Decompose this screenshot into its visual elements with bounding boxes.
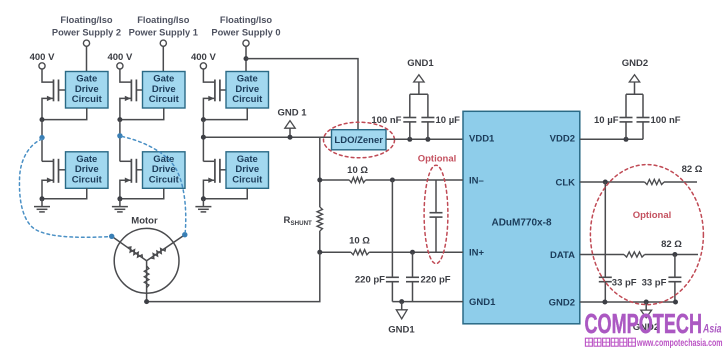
node: supply 0 branch junction <box>244 56 249 61</box>
ground GND1 (top, up triangle) <box>414 75 424 82</box>
node A: phase 1 tap (blue) <box>39 135 44 140</box>
wire: supply 1 to gate drive box 2 <box>162 46 164 71</box>
wire: cap bracket to GND2 (top) <box>626 82 643 94</box>
terminal circle: Power Supply 1 <box>160 40 166 46</box>
gate drive circuit block U3 (high side) <box>226 72 269 109</box>
svg-text:400 V: 400 V <box>191 52 216 63</box>
transistor Q5 (low side) <box>125 159 143 183</box>
ground (chassis) 1 <box>34 199 50 212</box>
node: source junction 3 <box>201 196 206 201</box>
ground (chassis) 3 <box>195 199 211 212</box>
optional ellipse (right) <box>590 165 703 305</box>
svg-text:Power Supply 1: Power Supply 1 <box>129 28 198 38</box>
capacitor 220 pF (left, from IN-) <box>386 180 399 302</box>
node: GND1 bottom junction <box>399 299 404 304</box>
wire: phase node 2 down to Q5 drain <box>119 120 121 162</box>
wire: gate drive U3 return to phase node <box>203 108 247 120</box>
wire: GND1 line to chip <box>392 301 463 303</box>
svg-text:Power Supply 2: Power Supply 2 <box>52 28 121 38</box>
wire: Q6 drain stub <box>203 160 215 162</box>
svg-text:Circuit: Circuit <box>72 175 103 186</box>
svg-text:100 nF: 100 nF <box>651 115 681 126</box>
svg-text:10 Ω: 10 Ω <box>347 165 368 176</box>
svg-text:Optional: Optional <box>633 210 672 221</box>
transistor Q4 (low side) <box>47 159 66 183</box>
motor M1 (circle) <box>114 228 179 293</box>
wire: GND1 stub down <box>401 302 403 310</box>
svg-text:Circuit: Circuit <box>149 175 180 186</box>
node: 10uF junction on VDD2 <box>624 137 629 142</box>
resistor 10 Ohm (IN+) <box>351 250 369 255</box>
resistor 82 Ohm (DATA) <box>624 252 645 257</box>
svg-text:ADuM770x-8: ADuM770x-8 <box>491 218 551 229</box>
svg-text:Floating/Iso: Floating/Iso <box>137 15 189 25</box>
gate drive circuit block U6 (low side) <box>226 152 269 189</box>
wire: Q5 drain stub <box>120 160 131 162</box>
gate drive circuit block U4 (low side) <box>66 152 109 189</box>
svg-text:Optional: Optional <box>418 153 457 164</box>
optional ellipse around LDO/Zener <box>324 122 395 158</box>
svg-text:GND2: GND2 <box>549 297 575 308</box>
transistor Q2 (high side) <box>125 80 143 102</box>
wire: Q3 source to phase node <box>203 98 215 119</box>
node: Floating/Iso Power Supply 2 label <box>52 15 121 37</box>
wire: gate drive U1 return to phase node <box>42 108 87 120</box>
svg-text:GND1: GND1 <box>469 297 496 308</box>
wire: motor winding arm left <box>112 236 147 260</box>
svg-text:Power Supply 0: Power Supply 0 <box>211 28 280 38</box>
node: watermark url line <box>585 337 722 349</box>
node: 100nF junction on VDD1 <box>407 137 412 142</box>
node: phase junction 2 <box>117 117 122 122</box>
terminal circle: Power Supply 2 <box>83 40 89 46</box>
capacitor 10 uF (VDD2) <box>620 94 633 139</box>
svg-text:DATA: DATA <box>550 250 575 261</box>
node: DATA junction <box>672 252 677 257</box>
svg-text:GND1: GND1 <box>407 58 434 69</box>
wire: motor winding arm bottom <box>146 261 148 302</box>
wire: gate drive U5 return to ground node <box>120 188 164 199</box>
capacitor 33 pF (DATA) <box>668 255 681 303</box>
svg-text:33 pF: 33 pF <box>642 277 667 288</box>
optional ellipse (mid) <box>424 165 448 263</box>
wire: supply 0 to gate drive box 3 <box>245 46 247 71</box>
node: IN+ junction with shunt <box>317 250 322 255</box>
wire: GND2 stub down <box>645 302 647 310</box>
wire: line down to R_SHUNT <box>319 137 321 207</box>
transistor Q6 (low side) <box>208 159 226 183</box>
resistor motor winding left <box>128 247 143 258</box>
node: source junction 1 <box>40 196 45 201</box>
wire: 400 V to Q2 drain <box>120 69 131 82</box>
capacitor 33 pF (CLK) <box>599 182 612 302</box>
svg-text:Circuit: Circuit <box>232 175 263 186</box>
wire: Q4 source to ground node <box>42 180 54 199</box>
gate drive circuit block U1 (high side) <box>66 72 109 109</box>
node: motor bottom corner <box>144 299 149 304</box>
node: Floating/Iso Power Supply 1 label <box>129 15 198 37</box>
resistor R_SHUNT <box>317 207 322 231</box>
svg-text:Circuit: Circuit <box>232 94 263 105</box>
node: source junction 2 <box>117 196 122 201</box>
node: Floating/Iso Power Supply 0 label <box>211 15 280 37</box>
node: phase junction 3 <box>201 117 206 122</box>
svg-text:220 pF: 220 pF <box>355 275 385 286</box>
wire: IN- line <box>320 179 463 181</box>
wire: GND2 line <box>580 301 676 303</box>
wire: Q2 source to phase node <box>120 98 131 119</box>
node: R_SHUNT label <box>284 215 313 227</box>
op-amp / isolator IC ADuM770x-8 <box>463 111 580 323</box>
node: motor terminal right (blue) <box>182 232 187 237</box>
wire: R_SHUNT bottom to IN+ junction <box>319 231 321 252</box>
capacitor C2 10 uF (VDD1) <box>421 94 434 139</box>
wire: 400 V to Q1 drain <box>42 69 54 82</box>
wire: gate drive U6 return to ground node <box>203 188 247 199</box>
node: 220pF tap on IN- <box>390 178 395 183</box>
wire: motor bottom to IN+ junction <box>147 252 320 301</box>
ground GND2 (bottom, down triangle) <box>641 310 652 318</box>
node B: phase 2 tap (blue) <box>117 133 122 138</box>
svg-text:33 pF: 33 pF <box>612 277 637 288</box>
terminal circle: 400 V 2 <box>117 63 123 69</box>
LDO/Zener regulator block <box>332 130 387 150</box>
wire: DATA line <box>580 254 698 256</box>
capacitor 220 pF (right, from IN+) <box>406 252 419 301</box>
svg-text:400 V: 400 V <box>107 52 132 63</box>
ground (chassis) 2 <box>112 199 128 212</box>
svg-text:10 µF: 10 µF <box>436 115 461 126</box>
svg-text:www.compotechasia.com: www.compotechasia.com <box>636 337 722 349</box>
svg-text:COMPOTECH: COMPOTECH <box>585 308 703 339</box>
resistor motor winding bottom <box>144 266 149 288</box>
wire: blue dashed phase 2 to motor right <box>122 137 186 233</box>
wire: gate drive U4 return to ground node <box>42 188 87 199</box>
node: phase junction 1 <box>40 117 45 122</box>
wire: supply 2 to gate drive box 1 <box>86 46 88 71</box>
resistor 10 Ohm (IN-) <box>349 177 365 182</box>
ground GND2 (top, up triangle) <box>629 75 639 82</box>
svg-text:VDD2: VDD2 <box>550 133 575 144</box>
wire: GND1 stub to line <box>289 128 291 137</box>
ground GND1 (mid, up triangle) <box>285 121 295 129</box>
svg-text:IN–: IN– <box>469 175 484 186</box>
node: GND1 junction on line <box>288 135 293 140</box>
svg-text:CLK: CLK <box>555 177 575 188</box>
wire: cap bracket to GND1 (top) <box>410 82 428 94</box>
svg-text:82 Ω: 82 Ω <box>661 239 682 250</box>
wire: blue dashed phase 1 to motor left <box>19 139 109 237</box>
wire: CLK line <box>580 181 697 183</box>
wire: Q1 source to phase node <box>42 98 54 119</box>
wire: phase 3 node to LDO/Zener input (y=137) <box>203 136 331 138</box>
node: CLK junction <box>603 180 608 185</box>
node: IN- start junction <box>317 178 322 183</box>
wire: phase node 1 down to Q4 drain <box>41 120 43 162</box>
terminal circle: 400 V 3 <box>200 63 206 69</box>
svg-text:LDO/Zener: LDO/Zener <box>334 135 383 146</box>
node: phase 3 tap junction <box>201 135 206 140</box>
svg-text:GND1: GND1 <box>388 324 415 335</box>
node: 220pF tap on IN+ <box>410 250 415 255</box>
svg-text:GND2: GND2 <box>622 58 648 69</box>
svg-text:SHUNT: SHUNT <box>291 220 313 227</box>
svg-text:100 nF: 100 nF <box>371 115 401 126</box>
svg-text:10 Ω: 10 Ω <box>349 236 370 247</box>
transistor Q3 (high side) <box>208 80 226 102</box>
terminal circle: 400 V 1 <box>39 63 45 69</box>
node: GND2 junction (center) <box>644 300 649 305</box>
ground GND1 (bottom, down triangle) <box>396 310 407 319</box>
wire: Q4 drain stub <box>42 160 54 162</box>
wire: phase node 3 down to Q6 drain <box>202 120 204 162</box>
svg-text:R: R <box>284 215 291 226</box>
resistor 82 Ohm (CLK) <box>645 179 664 184</box>
capacitor 100 nF (VDD2) <box>637 94 650 139</box>
svg-text:GND 1: GND 1 <box>277 107 307 118</box>
wire: Q6 source to ground node <box>203 180 215 199</box>
wire: VDD2 to caps <box>580 138 643 140</box>
svg-text:400 V: 400 V <box>30 52 55 63</box>
node: GND2 junction (33pF CLK) <box>602 300 607 305</box>
wire: motor winding arm right <box>147 235 185 261</box>
node: 10uF junction on VDD1 <box>425 137 430 142</box>
svg-text:Floating/Iso: Floating/Iso <box>220 15 272 25</box>
svg-text:Asia: Asia <box>702 322 721 336</box>
node: COMPOTECH watermark <box>585 308 722 339</box>
capacitor C1 100 nF (VDD1) <box>403 94 416 139</box>
terminal circle: Power Supply 0 <box>243 40 249 46</box>
svg-text:IN+: IN+ <box>469 248 485 259</box>
wire: supply 0 branch to LDO/Zener top <box>246 59 358 130</box>
node: GND2 junction (33pF DATA) <box>673 300 678 305</box>
svg-text:220 pF: 220 pF <box>421 275 451 286</box>
svg-text:Motor: Motor <box>131 215 158 226</box>
node: motor terminal left (blue) <box>109 234 114 239</box>
svg-text:Floating/Iso: Floating/Iso <box>60 15 112 25</box>
svg-text:82 Ω: 82 Ω <box>682 164 703 175</box>
wire: gate drive U2 return to phase node <box>120 108 164 120</box>
wire: 400 V to Q3 drain <box>203 69 215 82</box>
resistor motor winding right <box>151 248 166 259</box>
wire: IN+ line <box>320 251 463 253</box>
svg-text:Circuit: Circuit <box>72 94 103 105</box>
wire: LDO output to VDD1 <box>386 138 463 140</box>
gate drive circuit block U2 (high side) <box>143 72 186 109</box>
svg-text:VDD1: VDD1 <box>469 133 495 144</box>
capacitor optional (IN- to IN+) <box>430 180 443 252</box>
wire: Q5 source to ground node <box>120 180 131 199</box>
svg-text:10 µF: 10 µF <box>594 115 619 126</box>
svg-text:Circuit: Circuit <box>149 94 180 105</box>
gate drive circuit block U5 (low side) <box>143 152 186 189</box>
transistor Q1 (high side) <box>47 80 66 102</box>
